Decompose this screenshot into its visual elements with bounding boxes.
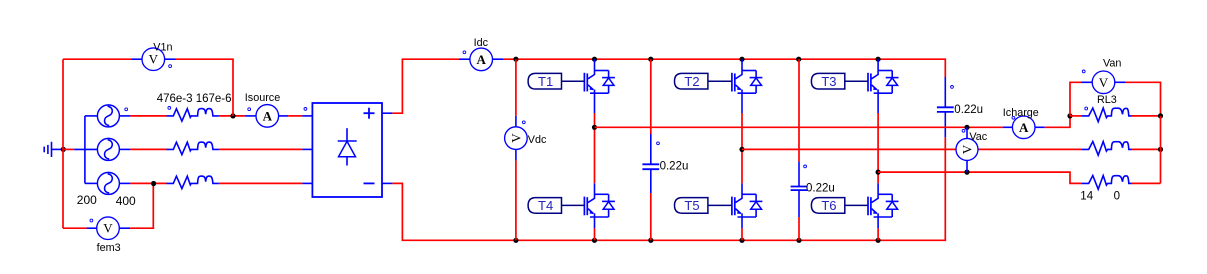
ground — [43, 147, 45, 153]
load RL branch 2 — [1081, 142, 1131, 156]
wire DC minus rail — [392, 137, 945, 240]
capacitor C3 0.22u — [798, 59, 800, 161]
gate block T5 — [675, 198, 708, 214]
svg-text:A: A — [477, 52, 487, 67]
node phase a — [592, 125, 597, 130]
wire left DC bus — [515, 59, 517, 116]
transistor Q1 top IGBT — [594, 59, 596, 70]
voltmeter Vac — [966, 127, 968, 138]
node top rail taps — [513, 57, 518, 62]
source VB phase 2 — [97, 138, 119, 160]
svg-text:200: 200 — [77, 193, 97, 207]
svg-text:V: V — [103, 221, 113, 236]
wire DC top rail — [503, 59, 945, 77]
transistor Q2 top IGBT — [741, 59, 743, 70]
wire Isource to rectifier — [288, 115, 302, 117]
rectifier minus sign — [364, 182, 375, 184]
svg-text:T6: T6 — [821, 198, 836, 213]
wire leg1 middle — [594, 113, 596, 183]
wire neutral red bus vertical — [62, 59, 64, 228]
rectifier bridge BD1 — [302, 115, 312, 117]
node phase c — [876, 170, 881, 175]
svg-text:0.22u: 0.22u — [954, 104, 983, 116]
node fem3 tap — [151, 181, 156, 186]
node load top-left — [1067, 113, 1072, 118]
transistor Q4 bottom IGBT — [594, 183, 596, 194]
wire phase2 source to R — [130, 148, 166, 150]
gate block T4 — [528, 198, 561, 214]
source VA phase 1 — [97, 105, 119, 127]
svg-text:RL3: RL3 — [1097, 94, 1117, 106]
voltmeter Van — [1081, 81, 1092, 83]
svg-text:14: 14 — [1080, 191, 1093, 203]
wire leg2 middle — [741, 113, 743, 183]
svg-text:T5: T5 — [684, 198, 699, 213]
svg-text:0: 0 — [1114, 191, 1120, 203]
load RL branch 3 — [1081, 176, 1131, 190]
svg-text:Vac: Vac — [969, 131, 987, 143]
svg-text:T3: T3 — [821, 74, 836, 89]
voltmeter Vdc — [515, 116, 517, 127]
rectifier diode symbol — [346, 128, 348, 141]
node load right top — [1158, 113, 1163, 118]
svg-text:T4: T4 — [538, 198, 553, 213]
gate block T2 — [675, 73, 708, 89]
svg-text:0.22u: 0.22u — [806, 183, 835, 195]
ammeter Icharge — [1003, 126, 1013, 128]
wire fem3 to phase3 — [130, 184, 153, 229]
capacitor C1 0.22u — [650, 59, 652, 134]
svg-text:A: A — [1019, 120, 1029, 135]
wire leg2 emitter to rail — [741, 228, 743, 240]
node phase1 tap — [230, 113, 235, 118]
load RL branch 1 — [1070, 115, 1081, 117]
wire leg3 emitter to rail — [877, 228, 879, 240]
wire phase3 source to R — [130, 182, 166, 184]
voltmeter fem3 — [63, 227, 87, 229]
svg-text:Icharge: Icharge — [1003, 107, 1039, 119]
wire phase3 to rectifier — [219, 182, 303, 184]
wire phase1 RL to Isource — [219, 115, 245, 117]
wire source pins right — [119, 115, 130, 117]
node Vac top tap — [964, 125, 969, 130]
svg-text:476e-3 167e-6: 476e-3 167e-6 — [157, 93, 232, 105]
wire phase2 to rectifier — [219, 148, 303, 150]
svg-text:Isource: Isource — [245, 92, 280, 104]
resistor-inductor RL2a — [167, 142, 219, 155]
node bottom rail taps — [513, 238, 518, 243]
node Vac bottom tap — [964, 170, 969, 175]
wire phase c to load — [878, 172, 1081, 183]
node neutral junction — [61, 147, 66, 152]
rectifier output pins — [382, 112, 392, 114]
wire phase a to load — [595, 126, 1003, 128]
svg-text:V: V — [960, 144, 975, 154]
gate block T3 — [811, 73, 844, 89]
capacitor C2 0.22u — [944, 77, 946, 107]
transistor Q3 top IGBT — [877, 59, 879, 70]
svg-text:T1: T1 — [538, 74, 553, 89]
ammeter Isource — [245, 115, 256, 117]
source VC phase 3 — [97, 172, 119, 194]
svg-text:V: V — [1099, 75, 1109, 90]
gate block T6 — [811, 198, 844, 214]
svg-text:400: 400 — [116, 194, 136, 208]
wire V1n loop — [63, 58, 131, 60]
svg-text:Van: Van — [1103, 58, 1121, 70]
svg-text:Idc: Idc — [474, 37, 489, 49]
gate block T1 — [528, 73, 561, 89]
svg-text:T2: T2 — [684, 74, 699, 89]
svg-text:Vdc: Vdc — [528, 134, 547, 146]
voltmeter V1n — [131, 58, 142, 60]
wire neutral to source2 — [63, 148, 74, 150]
transistor Q5 bottom IGBT — [741, 183, 743, 194]
rectifier plus sign — [364, 112, 375, 114]
wire phase1 source to R — [130, 115, 166, 117]
svg-text:V: V — [508, 133, 523, 143]
transistor Q6 bottom IGBT — [877, 183, 879, 194]
svg-text:A: A — [263, 108, 273, 123]
svg-text:V1n: V1n — [153, 42, 172, 54]
svg-text:V: V — [149, 52, 159, 67]
wire leg3 middle — [877, 113, 879, 183]
wire DC plus to Idc — [392, 59, 459, 113]
wire load right rail — [1160, 116, 1162, 183]
node phase b — [739, 147, 744, 152]
resistor-inductor RL1a — [168, 107, 171, 110]
wire phase b to load — [742, 148, 1081, 150]
ammeter Idc — [459, 58, 470, 60]
wire neutral blue links to sources — [84, 116, 86, 183]
wire Icharge to load corner — [1045, 116, 1070, 127]
svg-text:0.22u: 0.22u — [660, 160, 689, 172]
node load right middle — [1158, 147, 1163, 152]
wire leg1 emitter to rail — [594, 228, 596, 240]
wire Van loop — [1070, 82, 1081, 116]
svg-text:fem3: fem3 — [97, 242, 121, 254]
resistor-inductor RL3a — [167, 176, 219, 189]
